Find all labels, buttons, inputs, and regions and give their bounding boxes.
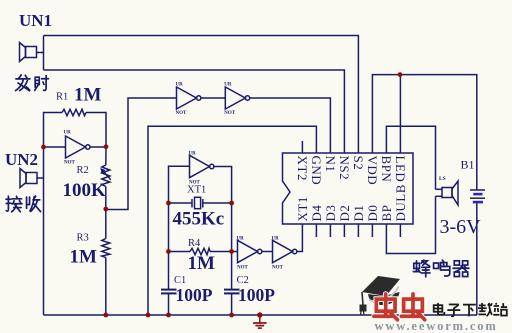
svg-text:1M: 1M (70, 247, 98, 268)
wire rail A: UN1 top terminal to IC pin S2 (44, 36, 359, 154)
op-amp U?D oscillator inverter (190, 155, 214, 177)
speaker UN2 (20, 169, 37, 188)
svg-text:D3: D3 (323, 205, 338, 222)
svg-text:VDD: VDD (365, 156, 380, 186)
node junction dot C2 bottom (229, 313, 234, 318)
speaker buzzer LS (442, 181, 458, 205)
op-amp U?C inverter gate2 (225, 87, 249, 109)
wire UN1 speaker stub (37, 52, 44, 54)
svg-text:GND: GND (309, 156, 324, 186)
svg-text:R3: R3 (77, 233, 89, 244)
op-amp U?A inverter (receive) (44, 136, 107, 158)
ground symbol (253, 312, 267, 328)
svg-text:UR: UR (224, 83, 232, 88)
wire gate1 out to gate2 in (201, 97, 225, 99)
watermark 载 (478, 303, 492, 316)
svg-text:3-6V: 3-6V (440, 216, 482, 238)
label 收 (receive char2) (27, 196, 41, 212)
wire oscillator left column (169, 166, 190, 289)
potentiometer R2 with leads (100, 147, 111, 210)
svg-text:BPN: BPN (379, 156, 394, 183)
svg-text:LS: LS (439, 176, 446, 182)
svg-text:NS2: NS2 (337, 156, 352, 181)
pin D0 stub (371, 224, 373, 237)
node junction dot GND net bottom (146, 313, 151, 318)
svg-text:UR: UR (237, 236, 245, 241)
svg-text:NOT: NOT (237, 266, 249, 271)
svg-text:S2: S2 (351, 156, 366, 171)
crystal XT1 (169, 197, 232, 208)
wire buffer2 out to IC pin XT1 (297, 224, 303, 252)
svg-text:R1: R1 (56, 92, 68, 103)
label 鸣 (buzzer char2) (434, 260, 450, 276)
resistor R1 with leads (44, 113, 63, 148)
op-amp U?F buffer2 inverter (273, 240, 297, 262)
op-amp U?B inverter gate1 (177, 87, 201, 109)
node junction dot R3 bottom (103, 313, 108, 318)
svg-text:1M: 1M (188, 253, 216, 274)
svg-text:www.eeworm.com: www.eeworm.com (375, 319, 498, 333)
pin XT2 stub (301, 141, 303, 153)
node junction dot C1 bottom (166, 313, 171, 318)
svg-text:D1: D1 (351, 205, 366, 222)
wire UN1 vertical connector (43, 36, 45, 71)
watermark 虫 red char2 (401, 294, 424, 320)
wire buffer1 to buffer2 (262, 251, 273, 253)
svg-text:DULB: DULB (393, 184, 408, 221)
wire R4 out to buffer1 (232, 251, 238, 253)
wire feedback from R2 wiper to gate chain input (106, 98, 177, 210)
pin D2 stub (343, 224, 345, 237)
watermark 站 (493, 303, 507, 316)
svg-text:XT1: XT1 (187, 185, 206, 196)
svg-text:R4: R4 (188, 238, 201, 249)
op-amp U?E buffer1 inverter (238, 240, 262, 262)
wire gate2 out to IC pin N1 (250, 98, 331, 154)
svg-text:100K: 100K (63, 180, 107, 201)
node junction dot R4 right (229, 249, 234, 254)
battery B1 (470, 190, 485, 315)
capacitor C2 (224, 290, 240, 294)
wire oscillator left column below C1 (168, 294, 170, 315)
svg-text:R2: R2 (77, 165, 89, 176)
svg-text:UN1: UN1 (19, 11, 52, 30)
watermark graduation cap (360, 276, 401, 315)
wire rail B: UN1 bottom terminal to IC pin NS2 (44, 70, 345, 154)
wire oscillator right column below C2 (231, 294, 233, 315)
pin D4 stub (315, 224, 317, 237)
wire bottom rail (44, 314, 478, 316)
svg-text:BP: BP (379, 205, 394, 222)
wire BPN pin to buzzer top (386, 126, 435, 189)
capacitor C1 (161, 290, 177, 294)
node junction dot R1/gate out/R2 (104, 144, 109, 149)
speaker UN1 (20, 43, 37, 62)
svg-text:455Kc: 455Kc (173, 209, 225, 230)
pin D3 stub (329, 224, 331, 237)
watermark 虫 red char1 (374, 294, 397, 320)
pin D1 stub (357, 224, 359, 237)
node junction dot VDD rail / LED pin (398, 72, 403, 77)
wire GND pin net down to bottom rail (148, 126, 316, 315)
svg-text:100P: 100P (238, 285, 275, 305)
wire oscillator right column (214, 167, 232, 290)
svg-text:NOT: NOT (64, 161, 76, 166)
svg-text:NOT: NOT (272, 266, 284, 271)
svg-text:UR: UR (272, 236, 280, 241)
svg-text:D2: D2 (337, 205, 352, 222)
node junction dot R4 left (166, 249, 171, 254)
wire UN2 speaker stub (37, 177, 44, 179)
svg-text:NOT: NOT (176, 111, 188, 116)
svg-text:D4: D4 (309, 205, 324, 222)
node junction dot crystal right (229, 201, 234, 206)
watermark 电 (434, 303, 445, 315)
node junction dot UN2/R1/gate input (41, 145, 46, 150)
svg-text:NOT: NOT (224, 111, 236, 116)
svg-text:B1: B1 (461, 158, 475, 172)
IC U1 body with notch (283, 153, 414, 224)
resistor R4 with leads (169, 248, 232, 254)
wire LED pin to VDD rail (399, 75, 401, 154)
label 器 (buzzer char3) (453, 261, 469, 277)
label 发 (transmit char1) (15, 75, 29, 91)
svg-text:D0: D0 (365, 205, 380, 222)
svg-text:XT1: XT1 (295, 196, 310, 221)
wire BP pin to buzzer bottom (386, 196, 435, 253)
pin DULB stub (399, 224, 401, 237)
svg-text:UR: UR (176, 83, 184, 88)
svg-text:LED: LED (393, 156, 408, 183)
svg-text:UN2: UN2 (5, 150, 38, 169)
svg-text:100P: 100P (176, 285, 213, 305)
svg-text:XT2: XT2 (295, 156, 310, 181)
resistor R3 with leads (102, 209, 110, 315)
svg-text:1M: 1M (74, 85, 102, 106)
node junction dot R2/R3/feedback (103, 207, 108, 212)
wire UN2 column down to bottom rail (43, 147, 45, 315)
wire VDD rail (372, 75, 476, 190)
node junction dot crystal left (166, 201, 171, 206)
wire buzzer terminal stubs (436, 189, 443, 196)
svg-text:NOT: NOT (189, 181, 201, 186)
svg-text:UR: UR (64, 131, 72, 136)
watermark 子 (447, 304, 460, 316)
label 射 (transmit char2) (35, 76, 49, 91)
svg-text:UR: UR (189, 151, 197, 156)
watermark 下 (463, 305, 476, 317)
label 接 (receive char1) (6, 196, 22, 212)
label 蜂 (buzzer char1) (413, 260, 430, 277)
svg-text:N1: N1 (323, 156, 338, 173)
